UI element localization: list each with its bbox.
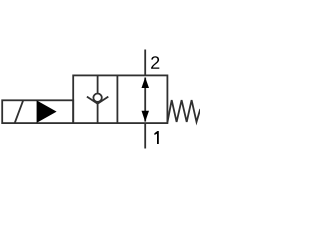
label port 1 bbox=[154, 131, 158, 144]
divider line between pilot section and main poppet section bbox=[116, 75, 118, 123]
spring bbox=[167, 100, 200, 122]
solenoid actuation triangle bbox=[37, 100, 57, 123]
solenoid diagonal line bbox=[15, 100, 24, 123]
check valve ball circle bbox=[93, 94, 101, 102]
wire: port 1 line bbox=[144, 123, 146, 149]
flow arrow shaft bbox=[144, 78, 146, 122]
flow arrow head up bbox=[142, 77, 150, 88]
check valve seat V bbox=[87, 97, 108, 104]
flow arrow head down bbox=[142, 111, 150, 122]
check valve lower stem bbox=[97, 104, 99, 123]
solenoid box bbox=[2, 100, 73, 123]
check valve upper stem bbox=[97, 75, 99, 94]
valve body rectangle bbox=[73, 75, 167, 123]
wire: port 2 line bbox=[144, 50, 146, 77]
label port 2 bbox=[151, 56, 159, 69]
